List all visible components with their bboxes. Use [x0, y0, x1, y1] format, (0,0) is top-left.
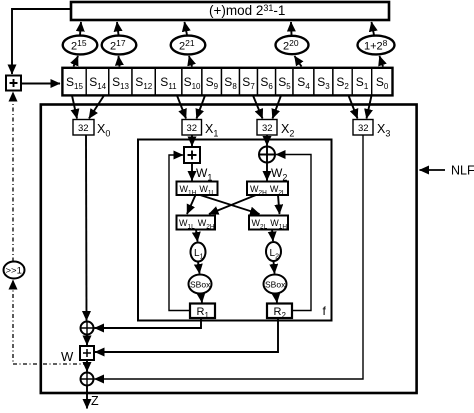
svg-text:W1: W1 — [196, 166, 212, 183]
svg-text:SBox: SBox — [265, 280, 286, 290]
LFSR cell S1 — [352, 68, 372, 96]
NLF pointer arrow — [420, 169, 446, 171]
LFSR cell S9 — [202, 68, 222, 96]
wire ellipse 1+2^8 to bar — [372, 22, 375, 35]
box W2L W1H — [249, 216, 288, 231]
LFSR register row — [62, 68, 392, 96]
wire R2 output to adder W — [95, 319, 278, 353]
svg-text:Z: Z — [91, 394, 99, 408]
box W1L W2H — [177, 216, 216, 231]
wire S0 to ellipse 1+2^8 — [380, 56, 384, 67]
svg-text:SBox: SBox — [190, 280, 211, 290]
wire X2 to xor — [266, 136, 268, 146]
svg-text:32: 32 — [262, 123, 273, 134]
wire to L1 — [196, 230, 198, 242]
xor circle in f — [259, 147, 275, 163]
adder bar (+)mod 2^31-1 — [71, 2, 389, 20]
svg-text:>>1: >>1 — [6, 266, 22, 277]
wire ellipse 2^21 to bar — [185, 22, 188, 35]
wire ellipse 2^20 to bar — [290, 22, 293, 35]
wire S7 to X2 — [253, 96, 263, 119]
wire keystream Z output — [86, 386, 88, 409]
wire W1 — [191, 163, 193, 181]
dash-dot wire W tap to shifter — [13, 280, 87, 364]
LFSR cell S8 — [222, 68, 240, 96]
multiplier ellipse 2^17 — [102, 36, 137, 55]
wire W2L straight down — [278, 195, 280, 214]
svg-text:X0: X0 — [97, 122, 110, 139]
wire S9 to X1 — [197, 96, 206, 119]
wire W2 — [266, 163, 268, 181]
wire X3 down and across to xor2 — [95, 136, 364, 380]
bit-reorg box 32 X1 — [182, 120, 202, 136]
register R1 — [190, 304, 215, 321]
wire adder to S15 — [22, 83, 61, 85]
wire S0 to X3 — [367, 96, 372, 119]
LFSR cell S3 — [314, 68, 333, 96]
NLF outer box — [41, 105, 417, 394]
LFSR cell S12 — [132, 68, 155, 96]
svg-text:X2: X2 — [281, 122, 294, 139]
svg-text:32: 32 — [78, 123, 89, 134]
svg-text:f: f — [323, 304, 327, 318]
wire SBox2 to R2 — [276, 294, 277, 303]
xor1 circle — [81, 322, 94, 335]
svg-text:NLF: NLF — [451, 164, 474, 178]
box W2H W2L — [247, 182, 288, 197]
wire S5 to X2 — [273, 96, 282, 119]
bit-reorg box 32 X3 — [353, 120, 373, 136]
LFSR cell S4 — [293, 68, 314, 96]
wire X1 to adder — [191, 136, 193, 147]
wire S2 to X3 — [349, 96, 358, 119]
wire W1L straight down — [187, 195, 196, 214]
svg-text:(+)mod 231-1: (+)mod 231-1 — [209, 3, 285, 18]
adder W + box — [80, 346, 94, 360]
linear transform L1 — [191, 243, 206, 262]
LFSR cell S14 — [86, 68, 109, 96]
LFSR cell S2 — [333, 68, 352, 96]
LFSR cell S6 — [258, 68, 276, 96]
LFSR cell S5 — [276, 68, 293, 96]
wire ellipse 2^17 to bar — [117, 22, 119, 35]
wire X0 down to xor1 — [85, 136, 88, 321]
wire S4 to ellipse 2^20 — [295, 56, 302, 67]
wire adder W to xor2 — [86, 360, 88, 372]
LFSR cell S11 — [155, 68, 182, 96]
wire S14 to X0 — [89, 96, 104, 119]
LFSR cell S7 — [240, 68, 258, 96]
wire S11 to X1 — [177, 96, 186, 119]
multiplier ellipse 2^20 — [276, 36, 309, 54]
wire bar output to feedback adder — [12, 9, 70, 74]
wire S15 to X0 — [72, 96, 77, 119]
wire S13 to ellipse 2^17 — [119, 56, 120, 67]
SBox2 ellipse — [264, 275, 287, 294]
svg-text:W: W — [61, 349, 74, 364]
SBox1 ellipse — [189, 275, 212, 294]
wire L2 to SBox2 — [274, 261, 275, 274]
svg-text:32: 32 — [358, 123, 369, 134]
wire L1 to SBox1 — [198, 262, 200, 274]
svg-text:X1: X1 — [205, 122, 218, 139]
wire SBox1 to R1 — [201, 294, 202, 303]
multiplier ellipse 2^21 — [171, 36, 206, 55]
box W1H W1L — [177, 182, 218, 197]
wire to L2 — [272, 230, 273, 242]
f function box — [138, 140, 332, 321]
wire xor1 to adder W — [86, 335, 88, 346]
svg-text:W2: W2 — [271, 166, 287, 183]
register R2 — [267, 304, 292, 321]
bit-reorg box 32 X2 — [257, 120, 277, 136]
svg-text:32: 32 — [187, 123, 198, 134]
bit-reorg box 32 X0 — [73, 120, 94, 136]
LFSR cell S13 — [109, 68, 132, 96]
xor2 circle — [81, 373, 94, 386]
wire ellipse 2^15 to bar — [80, 22, 81, 35]
LFSR cell S0 — [372, 68, 393, 96]
LFSR cell S10 — [182, 68, 202, 96]
multiplier ellipse 2^15 — [63, 36, 98, 55]
LFSR row outer border — [62, 68, 392, 96]
LFSR cell S15 — [62, 68, 86, 96]
wire S15 to ellipse 2^15 — [74, 56, 79, 67]
wire S10 to ellipse 2^21 — [189, 56, 192, 67]
wire R1 feedback to adder — [169, 155, 190, 311]
wire R2 feedback to xor — [276, 155, 311, 311]
multiplier ellipse 1+2^8 — [358, 36, 395, 55]
dash-dot wire shifter to feedback adder — [12, 92, 14, 262]
shifter ellipse >>1 — [4, 262, 25, 279]
svg-text:X3: X3 — [377, 122, 390, 139]
wire W1H cross to right — [200, 195, 260, 214]
adder + box in f — [184, 147, 200, 163]
wire R1 output to xor1 — [95, 319, 202, 329]
linear transform L2 — [266, 242, 281, 261]
wire W2H cross to left — [209, 195, 256, 214]
feedback adder + box — [6, 76, 21, 91]
